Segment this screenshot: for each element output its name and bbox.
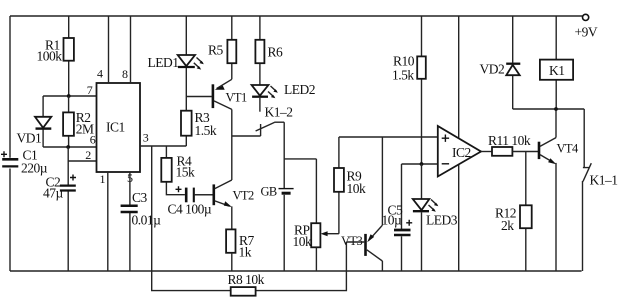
svg-text:VD1: VD1 bbox=[17, 131, 42, 146]
svg-text:+9V: +9V bbox=[575, 25, 598, 40]
transistor Q3 VT3 PNP bbox=[341, 225, 382, 261]
svg-text:4: 4 bbox=[97, 67, 103, 81]
resistor R3 bbox=[181, 110, 217, 138]
wire pin 2 bbox=[68, 160, 96, 162]
transistor Q2 VT2 NPN bbox=[214, 180, 254, 207]
svg-text:LED1: LED1 bbox=[148, 55, 179, 70]
capacitor C2 bbox=[43, 175, 76, 201]
svg-text:1.5k: 1.5k bbox=[392, 68, 414, 83]
svg-text:2: 2 bbox=[85, 148, 91, 162]
wire node D down to K1-1 bbox=[583, 109, 589, 168]
svg-text:100k: 100k bbox=[37, 49, 63, 64]
op-amp U2 IC2 bbox=[438, 126, 481, 177]
resistor R12 bbox=[495, 205, 532, 233]
svg-text:2k: 2k bbox=[501, 218, 514, 233]
resistor R6 bbox=[255, 40, 283, 63]
wire R5 leads bbox=[231, 16, 233, 79]
resistor R10 bbox=[392, 54, 426, 83]
switch K1-2 bbox=[256, 105, 293, 132]
svg-text:6: 6 bbox=[90, 133, 96, 147]
transistor Q4 VT4 NPN bbox=[539, 138, 579, 165]
wire pin 4 bbox=[97, 16, 109, 83]
wire R1 column bbox=[68, 16, 70, 96]
wire R10 column bbox=[421, 16, 423, 164]
wire R4 leads bbox=[166, 146, 185, 195]
wire bottom ground rail bbox=[10, 270, 582, 272]
wire VT1 base wire bbox=[186, 96, 212, 98]
capacitor C3 bbox=[121, 190, 162, 228]
svg-text:R5: R5 bbox=[208, 43, 224, 58]
terminal +9V bbox=[575, 14, 598, 39]
capacitor C4 bbox=[168, 186, 213, 216]
wire VT1/VT2 collector column bbox=[231, 109, 233, 180]
wire IC2 minus input to C5 bbox=[402, 164, 438, 229]
battery GB bbox=[261, 185, 294, 272]
svg-text:LED3: LED3 bbox=[426, 213, 458, 228]
wire VT3 base lead bbox=[346, 241, 364, 243]
wire IC2 output to R11 bbox=[481, 151, 492, 153]
svg-text:R11 10k: R11 10k bbox=[488, 133, 531, 148]
svg-text:R6: R6 bbox=[268, 45, 284, 60]
svg-text:8: 8 bbox=[122, 67, 128, 81]
svg-text:VD2: VD2 bbox=[480, 62, 505, 77]
svg-text:LED2: LED2 bbox=[284, 82, 315, 97]
svg-text:GB: GB bbox=[261, 185, 277, 199]
svg-text:10k: 10k bbox=[347, 181, 367, 196]
wire R3 top lead (shared with LED1 bottom) bbox=[185, 110, 187, 112]
svg-text:1: 1 bbox=[100, 172, 106, 186]
LED LED2 bbox=[252, 82, 315, 112]
node C junction R10/LED3/minus input bbox=[420, 162, 424, 166]
wire K1-2 left lead bbox=[232, 124, 261, 136]
pin 7 label bbox=[87, 83, 93, 97]
wire IC2 power rails bbox=[458, 16, 460, 271]
resistor R2 bbox=[63, 110, 94, 137]
diode VD2 bbox=[480, 16, 521, 109]
transistor Q1 VT1 PNP bbox=[213, 79, 247, 109]
wire R12 leads bbox=[525, 152, 527, 272]
wire pin 8 bbox=[122, 16, 131, 83]
resistor R7 bbox=[226, 229, 254, 271]
svg-text:K1–2: K1–2 bbox=[265, 105, 293, 120]
svg-text:1k: 1k bbox=[239, 245, 252, 260]
LED LED3 bbox=[413, 164, 458, 271]
wire +9V top rail bbox=[10, 15, 582, 17]
resistor R11 bbox=[488, 133, 531, 156]
wire left border rail bbox=[9, 16, 11, 271]
pin 2 label bbox=[85, 148, 91, 162]
svg-text:C3: C3 bbox=[132, 190, 148, 205]
svg-text:VT1: VT1 bbox=[226, 91, 247, 105]
wire VT4 collector to node D bbox=[555, 109, 557, 138]
svg-text:C4 100µ: C4 100µ bbox=[168, 202, 212, 217]
capacitor C1 bbox=[1, 148, 48, 176]
svg-text:5: 5 bbox=[127, 171, 133, 185]
wire pin 1 to ground bbox=[100, 172, 108, 271]
wire R9 leads bbox=[339, 137, 438, 234]
wire node B down to C2 and ground bbox=[67, 147, 69, 271]
IC U1 555 timer IC1 bbox=[97, 83, 141, 172]
svg-text:VT2: VT2 bbox=[233, 189, 254, 203]
svg-text:K1: K1 bbox=[549, 63, 565, 78]
potentiometer RP bbox=[293, 223, 339, 272]
svg-text:0.01µ: 0.01µ bbox=[132, 213, 162, 228]
resistor R1 bbox=[37, 38, 74, 64]
wire pin 3 output bbox=[140, 131, 186, 147]
wire VT2 emitter to R7 bbox=[231, 206, 233, 229]
LED LED1 bbox=[148, 16, 204, 111]
node D junction K1/VD2/VT4/K1-1 bbox=[513, 107, 585, 111]
svg-text:IC1: IC1 bbox=[106, 120, 125, 135]
switch K1-1 bbox=[583, 163, 618, 271]
svg-text:10µ: 10µ bbox=[382, 213, 403, 228]
wire K1-2 to battery GB bbox=[283, 122, 285, 188]
svg-text:K1–1: K1–1 bbox=[590, 173, 618, 188]
pin 6 label bbox=[90, 133, 96, 147]
relay coil K1 bbox=[540, 16, 573, 109]
node B junction R2/VD1/pin6 bbox=[43, 145, 96, 149]
wire pin3 to R8 lower rail to VT3 base bbox=[152, 146, 347, 291]
wire VT3 emitter up to comparator + input bbox=[381, 137, 383, 225]
resistor R4 bbox=[161, 154, 195, 182]
resistor R5 bbox=[208, 40, 236, 63]
svg-text:R10: R10 bbox=[393, 54, 415, 69]
wire R6 leads bbox=[259, 16, 261, 85]
svg-text:220µ: 220µ bbox=[21, 161, 48, 176]
capacitor C5 bbox=[382, 203, 413, 272]
wire R11 to VT4 base bbox=[512, 151, 538, 153]
wire VT4 emitter to ground bbox=[555, 163, 557, 271]
wire battery node to RP top bbox=[284, 159, 316, 223]
svg-text:IC2: IC2 bbox=[452, 145, 471, 160]
wire VT2 base lead from C4 bbox=[195, 194, 213, 196]
wire VT3 collector to ground bbox=[381, 261, 383, 271]
resistor R8 bbox=[228, 272, 265, 296]
svg-text:7: 7 bbox=[87, 83, 93, 97]
svg-text:VT4: VT4 bbox=[557, 142, 579, 156]
svg-text:VT3: VT3 bbox=[341, 234, 362, 248]
resistor R9 bbox=[334, 168, 366, 196]
wire pin 5 to C3 bbox=[127, 171, 133, 271]
svg-text:10k: 10k bbox=[293, 234, 313, 249]
svg-text:15k: 15k bbox=[176, 165, 196, 180]
svg-text:47µ: 47µ bbox=[43, 186, 64, 201]
svg-text:3: 3 bbox=[143, 131, 149, 145]
node A junction R1/R2/VD1/pin7 bbox=[43, 94, 96, 98]
diode VD1 bbox=[17, 96, 52, 147]
wire R2 leads bbox=[68, 96, 70, 147]
svg-text:1.5k: 1.5k bbox=[195, 123, 217, 138]
svg-text:R8 10k: R8 10k bbox=[228, 272, 265, 287]
